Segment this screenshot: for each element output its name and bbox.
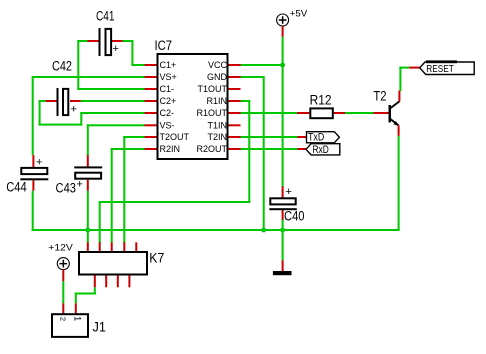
capacitor C40 [269, 186, 304, 224]
wire RESET to T2 collector [399, 67, 409, 69]
IC7 pin stub C2- [145, 112, 157, 114]
svg-text:+5V: +5V [290, 8, 308, 19]
wire GND rail [32, 229, 400, 231]
svg-text:+: + [36, 157, 42, 169]
wire T2IN to TxD [241, 136, 298, 138]
wire +5V vertical [282, 37, 284, 187]
svg-text:1: 1 [72, 316, 82, 321]
TxD flag [297, 132, 339, 144]
IC7 pin stub T1OUT [229, 88, 241, 90]
wire T2 emitter to rail [398, 136, 400, 231]
junction dot rail/C40 [280, 228, 285, 233]
svg-text:C44: C44 [6, 180, 27, 195]
op-amp box IC7 [158, 54, 228, 159]
svg-text:R12: R12 [310, 93, 332, 108]
IC7 pin stub C1- [145, 88, 157, 90]
svg-text:C40: C40 [284, 209, 305, 224]
capacitor C42 [46, 58, 81, 116]
svg-text:R2IN: R2IN [160, 144, 181, 154]
svg-text:RxD: RxD [313, 144, 329, 156]
svg-text:VS+: VS+ [160, 72, 177, 82]
IC7 pin stub R1IN [229, 100, 241, 102]
svg-text:VCC: VCC [208, 60, 228, 70]
RESET flag [409, 60, 474, 74]
wire T2OUT to K7 pin4 [123, 136, 144, 138]
svg-text:+12V: +12V [48, 243, 73, 254]
connector K7 [79, 242, 164, 287]
wire rail to ground symbol [282, 229, 284, 260]
svg-text:C42: C42 [52, 58, 72, 73]
wire R2OUT to RxD [241, 148, 298, 150]
IC7 pin stub C2+ [145, 100, 157, 102]
wire VS- net to C43 [87, 124, 145, 126]
junction dot rail/K7 pin1 [85, 228, 90, 233]
svg-text:C1+: C1+ [160, 60, 177, 70]
svg-text:C41: C41 [96, 9, 115, 24]
+12V power symbol [48, 243, 73, 282]
IC7 pin stub T2OUT [145, 136, 157, 138]
svg-text:R1OUT: R1OUT [196, 108, 227, 118]
+5V power symbol [277, 8, 308, 36]
wire C40 bottom to rail [282, 219, 284, 230]
wire C43 bottom to GND rail and K7 pin1 [87, 191, 89, 243]
svg-text:2: 2 [59, 317, 68, 321]
svg-text:C43: C43 [56, 180, 77, 195]
svg-text:C2+: C2+ [160, 96, 177, 106]
wire R2IN to K7 pin3 [111, 148, 145, 150]
svg-text:T2OUT: T2OUT [160, 132, 190, 142]
svg-text:J1: J1 [93, 319, 106, 334]
IC7 pin stub T1IN [229, 124, 241, 126]
svg-text:VS-: VS- [160, 121, 175, 131]
junction dot VCC/+5V [280, 63, 285, 68]
svg-text:+: + [113, 43, 119, 55]
wire R1OUT to R12 [241, 112, 298, 114]
wire K7 pin b1 to J1 pin1 [94, 287, 96, 294]
wire +12V to J1 pin2 [62, 281, 64, 303]
IC7 pin stub GND [229, 76, 241, 78]
wire GND pin to rail [241, 76, 264, 78]
svg-text:R2OUT: R2OUT [196, 144, 227, 154]
IC7 pin stub T2IN [229, 136, 241, 138]
wire R12 to T2 base [345, 112, 374, 114]
svg-text:+: + [286, 186, 292, 198]
wire C1- net from C41 left [77, 40, 87, 42]
svg-text:TxD: TxD [308, 132, 324, 144]
IC7 pin stub VS- [145, 124, 157, 126]
svg-text:+: + [77, 179, 83, 191]
wire C1+ net from C41 right [123, 40, 134, 42]
svg-text:GND: GND [207, 72, 228, 82]
wire C44 bottom to GND rail [32, 191, 34, 231]
svg-text:K7: K7 [149, 251, 164, 266]
IC7 pin stub R2IN [145, 148, 157, 150]
capacitor C44 [6, 155, 48, 194]
connector J1 [52, 303, 106, 337]
svg-text:T1OUT: T1OUT [197, 84, 227, 94]
resistor R12 [297, 93, 345, 119]
svg-text:T2: T2 [373, 88, 386, 103]
junction dot rail/GND line [261, 228, 266, 233]
svg-text:C1-: C1- [160, 84, 175, 94]
wire C2+ net from C42 right [81, 100, 145, 102]
RxD flag [297, 144, 340, 156]
wire R1IN to K7 pin2 [241, 100, 251, 102]
svg-text:R1IN: R1IN [206, 96, 227, 106]
wire VS+ net horizontal [32, 76, 145, 78]
IC7 pin stub VS+ [145, 76, 157, 78]
wire VS+ net vertical to C44 [32, 76, 34, 155]
capacitor C43 [56, 155, 103, 195]
IC7 pin stub R1OUT [229, 112, 241, 114]
svg-text:RESET: RESET [426, 63, 454, 75]
wire VCC to +5V [241, 64, 283, 66]
svg-text:T2IN: T2IN [207, 132, 227, 142]
svg-text:+: + [71, 104, 77, 116]
ground symbol [273, 260, 292, 275]
IC7 pin stub C1+ [145, 64, 157, 66]
svg-text:IC7: IC7 [155, 38, 173, 53]
svg-text:C2-: C2- [160, 108, 175, 118]
IC7 pin stub R2OUT [229, 148, 241, 150]
svg-text:T1IN: T1IN [207, 121, 227, 131]
wire C2- net from C42 left [39, 100, 46, 102]
capacitor C41 [88, 9, 123, 56]
IC7 pin stub VCC [229, 64, 241, 66]
transistor T2 [373, 88, 400, 135]
